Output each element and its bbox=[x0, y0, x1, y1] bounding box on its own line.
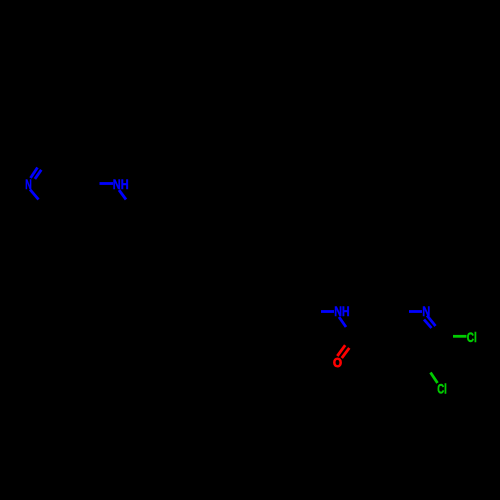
bond NH-C(=O) stub (down-right) bbox=[339, 317, 346, 327]
bond C-Cl (horizontal, upper chlorine) bbox=[453, 335, 467, 338]
left pyridine ring N=C double bond (upper stub) bbox=[31, 168, 42, 179]
svg-text:N: N bbox=[25, 176, 32, 192]
svg-text:O: O bbox=[333, 356, 342, 370]
svg-text:NH: NH bbox=[113, 176, 129, 192]
bond C-N (horizontal, right pyridine) bbox=[409, 310, 422, 313]
carbonyl C=O double bond (red) bbox=[337, 345, 349, 358]
right pyridine N=C double bond (down-right stubs) bbox=[424, 316, 436, 329]
bond NH-C stub (down-right) bbox=[119, 190, 126, 200]
bond C-Cl (diagonal, lower chlorine) bbox=[431, 373, 438, 384]
left pyridine ring N-C single bond (lower stub) bbox=[30, 190, 39, 200]
bond C-NH (horizontal, right amide) bbox=[321, 310, 334, 313]
svg-text:Cl: Cl bbox=[467, 329, 477, 345]
svg-text:NH: NH bbox=[334, 303, 350, 319]
svg-text:Cl: Cl bbox=[437, 380, 447, 396]
bond C-NH (horizontal, left amine) bbox=[100, 182, 114, 185]
